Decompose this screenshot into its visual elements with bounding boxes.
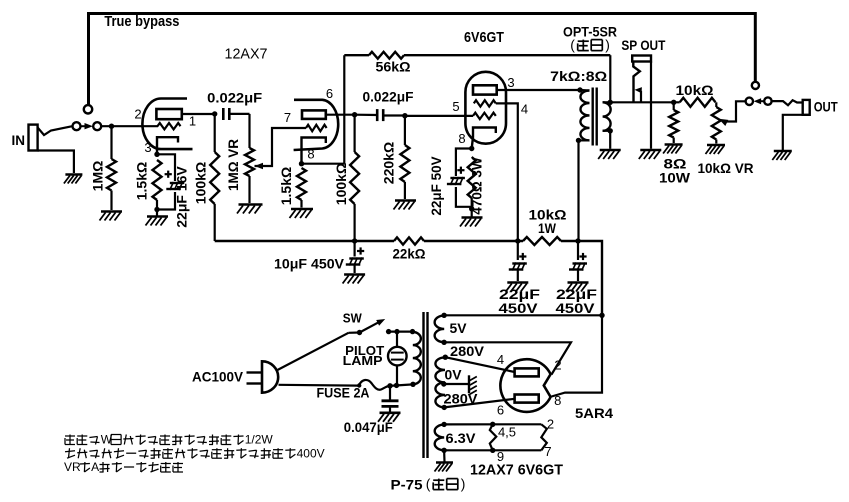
svg-text:VR: VR xyxy=(64,460,81,474)
svg-text:LAMP: LAMP xyxy=(343,353,383,368)
heater bus chevron 6V6 end xyxy=(541,424,547,450)
ground R1 xyxy=(101,210,122,213)
resistor R8 470ohm 3W xyxy=(468,157,476,198)
wire speaker line xyxy=(610,101,680,103)
ground cathode2 xyxy=(291,208,313,211)
ground R9 xyxy=(665,143,683,146)
svg-text:(: ( xyxy=(570,37,575,53)
svg-text:0.047μF: 0.047μF xyxy=(344,420,393,435)
wire screen to B+ rail xyxy=(496,103,518,241)
wire switch to grid node xyxy=(101,125,158,127)
svg-text:12AX7 6V6GT: 12AX7 6V6GT xyxy=(470,462,563,479)
svg-text:22μF 50V: 22μF 50V xyxy=(429,156,444,215)
svg-text:100kΩ: 100kΩ xyxy=(193,162,209,204)
svg-text:1.5kΩ: 1.5kΩ xyxy=(134,162,150,200)
svg-text:280V: 280V xyxy=(450,344,484,359)
tube U1a cathode (pin3) xyxy=(157,137,178,154)
ground input jack xyxy=(65,173,82,176)
wire NFB from rail to cathode2 xyxy=(302,163,345,165)
capacitor C7 22uF 450V second xyxy=(577,241,579,260)
ground OPT secondary xyxy=(609,131,611,149)
plug AC100V xyxy=(262,361,278,392)
transformer T2 6.3V winding xyxy=(435,425,445,451)
svg-text:IN: IN xyxy=(12,133,26,148)
svg-text:8: 8 xyxy=(458,131,465,146)
ground cathode1 xyxy=(156,210,158,216)
tube V2 6V6GT envelope xyxy=(465,72,506,144)
svg-text:2: 2 xyxy=(547,417,554,432)
switch SW power pivot xyxy=(357,330,362,335)
transformer T2 P-75 core xyxy=(422,312,424,458)
svg-text:6: 6 xyxy=(497,403,504,418)
resistor R4 1.5k ohm cathode2 xyxy=(297,168,306,200)
capacitor C5 10uF 450V xyxy=(354,241,356,257)
tube V3 plate 2 (pin6) xyxy=(515,395,539,403)
node 6V6 cathode bottom xyxy=(469,206,474,211)
node 6.3V top xyxy=(441,422,446,427)
switch SW blade with arrow xyxy=(360,322,380,333)
svg-text:(: ( xyxy=(426,476,431,492)
resistor R10 10k ohm xyxy=(680,98,716,107)
ground 6V6 cathode xyxy=(471,209,473,217)
svg-text:1W: 1W xyxy=(538,220,557,236)
resistor R3 100k ohm plate load 1 xyxy=(214,114,216,152)
wire OUT sleeve xyxy=(783,115,803,150)
tube V2 screen grid (pin4) xyxy=(474,100,496,106)
node input grid junction xyxy=(109,124,114,129)
potentiometer VR2 10k ohm VR xyxy=(715,102,717,107)
node HV tap center 0V xyxy=(441,381,446,386)
connector J1 IN jack xyxy=(29,125,38,151)
svg-text:1MΩ: 1MΩ xyxy=(89,161,105,192)
svg-text:12AX7: 12AX7 xyxy=(225,46,268,63)
svg-text:10kΩ: 10kΩ xyxy=(676,82,714,98)
switch SW1 bypass throw contact (open circle upper) xyxy=(84,105,92,113)
wire to 6V6 grid xyxy=(405,115,473,117)
svg-text:): ) xyxy=(461,476,466,492)
node 5V top xyxy=(441,313,446,318)
ground VR1 xyxy=(239,203,263,206)
svg-text:True bypass: True bypass xyxy=(104,14,179,30)
node HV tap top 280V xyxy=(443,355,448,360)
svg-text:4: 4 xyxy=(521,102,528,117)
svg-text:56kΩ: 56kΩ xyxy=(376,59,411,75)
svg-text:): ) xyxy=(605,37,610,53)
wire plug to power switch xyxy=(277,333,349,371)
svg-text:5: 5 xyxy=(452,99,459,114)
svg-text:10μF 450V: 10μF 450V xyxy=(274,256,345,272)
node HV tap bottom 280V xyxy=(442,405,447,410)
node cathode1 bottom xyxy=(154,207,159,212)
heater bus chevron 12AX7 xyxy=(490,424,497,450)
wire pin8 to B+ riser xyxy=(552,315,603,396)
transformer T2 primary winding xyxy=(413,332,421,384)
transformer T2 5V winding xyxy=(435,316,445,343)
wire heater 6.3V top bus xyxy=(444,423,541,425)
svg-text:8: 8 xyxy=(307,147,314,162)
ground 6.3V winding xyxy=(443,450,446,461)
wire 56k rail down to secondary xyxy=(609,55,611,102)
svg-text:22μF 16V: 22μF 16V xyxy=(174,166,190,228)
svg-text:7: 7 xyxy=(544,444,551,459)
tube U1a 12AX7 triode-1 envelope xyxy=(142,99,192,150)
tube U1a plate (pin1) xyxy=(156,109,181,119)
switch SW2 output contacts xyxy=(746,98,753,105)
svg-text:7kΩ:8Ω: 7kΩ:8Ω xyxy=(550,68,607,84)
transformer T1 core xyxy=(592,88,594,146)
lamp PILOT LAMP xyxy=(396,332,398,347)
svg-text:SP OUT: SP OUT xyxy=(621,37,665,53)
wire 5V top to B+ node xyxy=(444,314,602,316)
wire 280V top tap to plate pin4 xyxy=(445,357,514,372)
wire SP OUT sleeve xyxy=(650,62,652,149)
svg-text:450V: 450V xyxy=(556,300,596,316)
svg-text:2: 2 xyxy=(134,107,141,122)
ground SP OUT xyxy=(640,149,661,152)
wire heater 6.3V bottom bus xyxy=(444,449,541,451)
ground C5 xyxy=(344,273,365,276)
svg-text:0.022μF: 0.022μF xyxy=(363,89,414,105)
fuse FUSE 2A xyxy=(359,380,390,390)
connector J3 OUT jack xyxy=(772,100,803,105)
svg-text:1: 1 xyxy=(189,114,196,129)
svg-text:0.022μF: 0.022μF xyxy=(207,90,262,106)
svg-text:100kΩ: 100kΩ xyxy=(333,163,349,205)
node 5V bottom xyxy=(441,340,446,345)
node plate2 junction xyxy=(352,112,357,117)
svg-text:1MΩ VR: 1MΩ VR xyxy=(226,139,241,191)
capacitor C1 22uF 16V bypass loop xyxy=(157,154,175,181)
resistor R7 220k ohm grid xyxy=(404,116,406,145)
svg-text:6.3V: 6.3V xyxy=(446,430,477,446)
svg-text:450V: 450V xyxy=(499,300,539,316)
wire plug to fuse xyxy=(279,384,359,387)
node heater tap 4,5 xyxy=(490,422,495,427)
capacitor C2 0.022uF coupling xyxy=(222,108,225,120)
node B+ junction xyxy=(599,313,604,318)
tube U1b cathode (pin8) xyxy=(302,138,326,164)
svg-text:22kΩ: 22kΩ xyxy=(393,246,426,262)
wire plate2 lead xyxy=(326,114,355,116)
svg-text:FUSE 2A: FUSE 2A xyxy=(317,386,370,401)
tube V2 cathode (pin8) xyxy=(472,128,496,149)
capacitor C6 22uF 450V xyxy=(517,241,519,260)
svg-text:400V: 400V xyxy=(297,446,325,460)
switch SW1 input contacts xyxy=(73,122,81,130)
resistor R6 100k ohm plate load 2 xyxy=(354,115,356,152)
svg-text:1.5kΩ: 1.5kΩ xyxy=(278,167,294,205)
node 6V6 cathode xyxy=(469,146,474,151)
node rail C5 xyxy=(352,238,357,243)
svg-text:10W: 10W xyxy=(659,170,691,186)
resistor R9 8ohm 10W dummy load xyxy=(673,102,675,110)
svg-text:220kΩ: 220kΩ xyxy=(381,142,397,184)
ground HV center tap rotated xyxy=(468,375,470,393)
node plate1 junction xyxy=(212,111,217,116)
wiper VR2 wire to switch xyxy=(719,119,729,126)
resistor R2 1.5k ohm cathode xyxy=(153,160,162,200)
svg-text:10kΩ VR: 10kΩ VR xyxy=(698,160,754,176)
wire 280V bottom tap to plate pin6 xyxy=(444,399,514,408)
svg-text:P-75: P-75 xyxy=(391,477,423,493)
svg-text:470Ω 3W: 470Ω 3W xyxy=(470,157,485,215)
node OPT secondary bottom xyxy=(608,128,613,133)
wire pin2 to 5V winding bottom xyxy=(444,342,571,374)
wire plate1 lead xyxy=(182,113,215,115)
svg-text:5V: 5V xyxy=(450,321,467,336)
svg-text:7: 7 xyxy=(284,110,291,125)
tube V3 plate 1 (pin4) xyxy=(515,368,539,376)
wire input jack sleeve xyxy=(38,151,74,174)
tube U1b plate (pin6) xyxy=(302,110,326,119)
note capacitor voltage xyxy=(69,448,70,458)
wire AC top line to transformer xyxy=(389,331,415,333)
node rail C6 / screen xyxy=(515,238,520,243)
transformer T2 HV winding xyxy=(435,357,445,407)
ground OUT jack xyxy=(774,150,792,153)
svg-text:AC100V: AC100V xyxy=(192,369,243,384)
wire true-bypass top rail xyxy=(89,14,756,105)
ground R7 xyxy=(395,199,416,202)
capacitor C8 0.047uF line filter xyxy=(389,386,391,401)
svg-text:4: 4 xyxy=(497,352,504,367)
svg-text:OUT: OUT xyxy=(814,100,839,115)
resistor R5 56k ohm feedback xyxy=(344,54,369,56)
resistor R1 1M ohm grid leak xyxy=(110,126,112,159)
node OPT secondary top xyxy=(608,100,613,105)
svg-text:4,5: 4,5 xyxy=(498,425,516,440)
ground C7 xyxy=(568,281,589,284)
svg-text:5AR4: 5AR4 xyxy=(575,405,613,421)
wire B+ rail xyxy=(215,240,394,242)
svg-text:6V6GT: 6V6GT xyxy=(464,29,504,46)
wire plate2 node to C3 xyxy=(355,114,377,117)
wire 6V6 plate to OPT xyxy=(497,89,580,91)
wire HV center tap to chassis xyxy=(444,383,469,385)
svg-text:A: A xyxy=(91,460,99,474)
tube V3 5AR4 envelope with notch xyxy=(500,359,550,412)
ground C6 xyxy=(507,281,528,284)
node 6V6 grid junction xyxy=(402,113,407,118)
tube U1b grid zigzag (pin7) xyxy=(306,125,327,131)
transformer T1 OPT primary winding xyxy=(577,87,582,92)
svg-text:3: 3 xyxy=(144,140,151,155)
switch SW1 bypass throw contact (open circle right) xyxy=(752,82,759,89)
transformer T1 secondary winding xyxy=(603,102,611,131)
tube U1b 12AX7 triode-2 envelope xyxy=(294,100,339,150)
svg-text:6: 6 xyxy=(326,86,333,101)
svg-text:0V: 0V xyxy=(445,368,462,383)
wire fuse to transformer bottom xyxy=(390,384,414,386)
tube V2 plate (pin3) xyxy=(473,85,497,94)
resistor R12 10k ohm 1W xyxy=(523,237,561,245)
ground C8 xyxy=(380,411,401,414)
node OPT primary bottom xyxy=(576,138,581,143)
potentiometer VR1 1M ohm VR xyxy=(248,114,250,148)
note resistor wattage xyxy=(65,435,75,437)
wiper VR1 to grid2 wire xyxy=(255,163,264,169)
node speaker junction xyxy=(671,100,676,105)
svg-text:1/2W: 1/2W xyxy=(245,433,274,447)
capacitor C3 0.022uF coupling 2 xyxy=(376,109,379,121)
svg-text:SW: SW xyxy=(343,311,363,326)
svg-text:3: 3 xyxy=(507,75,514,90)
node 6.3V bottom xyxy=(441,448,446,453)
capacitor C4 22uF 50V loop xyxy=(456,149,472,177)
tube V2 control grid (pin5) xyxy=(473,113,496,119)
wire OPT primary bottom to rail xyxy=(577,140,579,241)
node cathode1 xyxy=(154,152,159,157)
resistor R11 22k ohm dropper xyxy=(394,237,424,244)
node rail C7 / OPT xyxy=(575,238,580,243)
tube U1a grid zigzag (pin2) xyxy=(158,123,181,129)
node cathode2 xyxy=(299,161,304,166)
node heater tap 9 xyxy=(490,448,495,453)
connector J2 SP OUT jack xyxy=(632,56,651,62)
ground VR2 xyxy=(707,144,725,147)
